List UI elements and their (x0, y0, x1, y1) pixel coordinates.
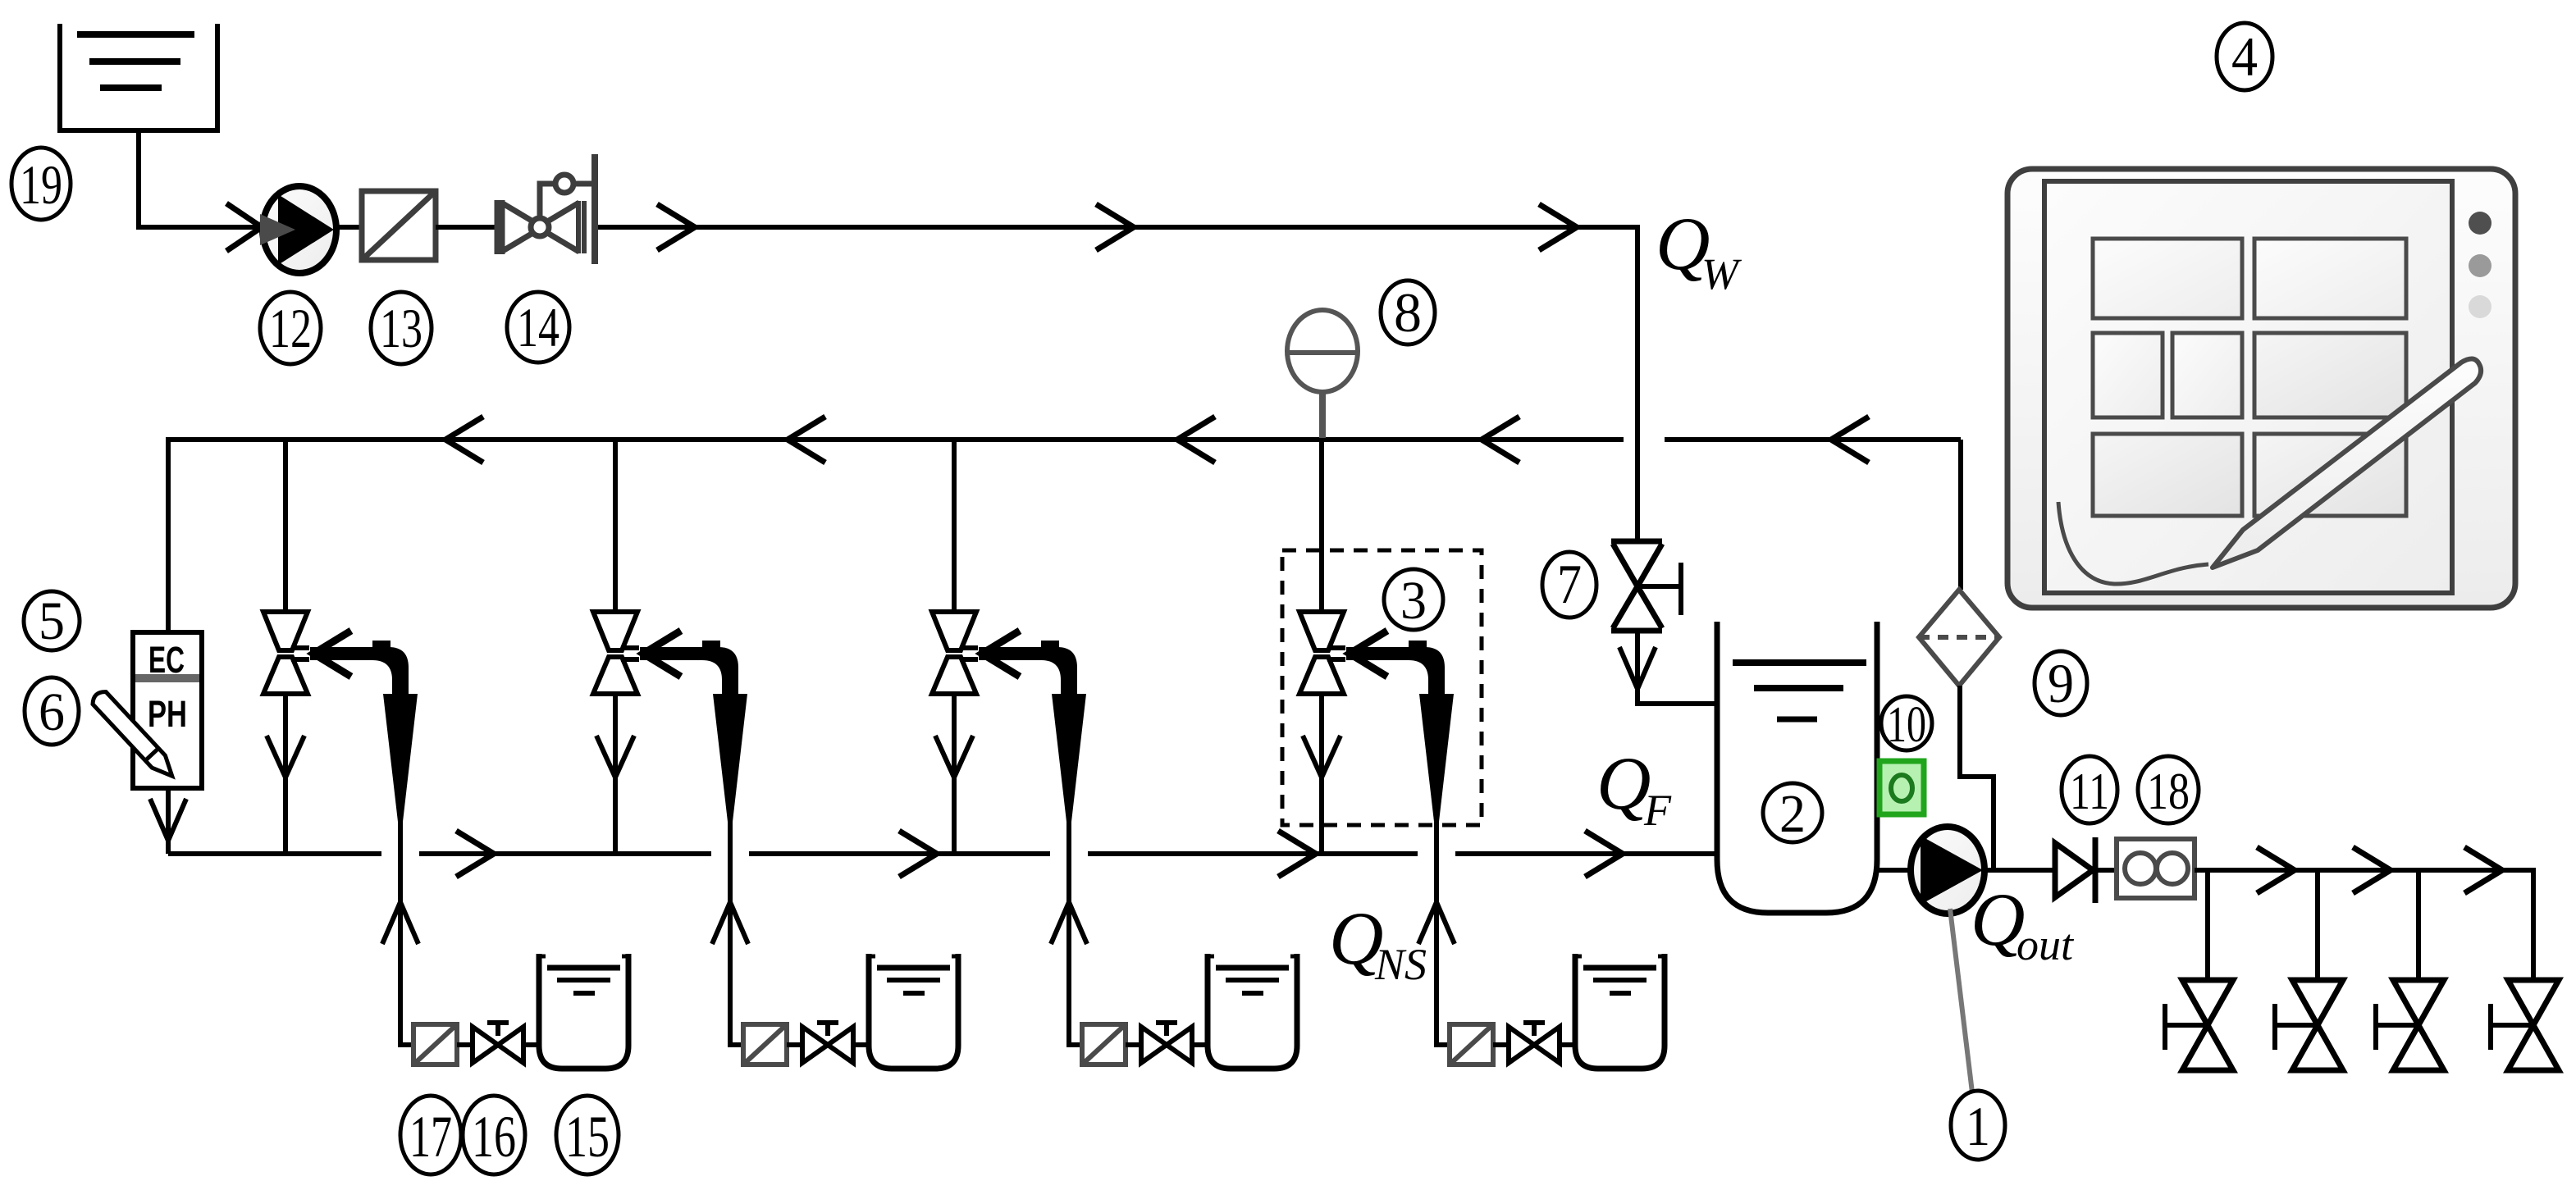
wire: return line from corner to EC/PH (with gap at Qw crossing) (168, 440, 1961, 632)
label 18 (2138, 756, 2199, 823)
stock tank (unit 1) (539, 954, 628, 1069)
label 4 (2217, 23, 2272, 90)
pump 12 (260, 186, 336, 273)
wire: suction filter to suction valve (unit 2) (787, 1042, 802, 1047)
wire: drop pipe from return line to injection valve (unit 1) (283, 440, 288, 613)
label 6 (25, 677, 79, 745)
svg-text:7: 7 (1557, 553, 1582, 615)
tablet button 1 (2469, 212, 2492, 235)
leader line to label 1 (1950, 909, 1972, 1092)
svg-text:PH: PH (148, 693, 187, 735)
svg-text:3: 3 (1400, 571, 1427, 631)
arrow up on suction pipe (unit 4) (1418, 902, 1455, 944)
arrow below injection valve (unit 2) (596, 736, 634, 777)
wire: feed manifold QF line (gaps at venturi crossings) (168, 851, 1717, 856)
sensor 8 (pressure sensor) (1287, 310, 1358, 438)
stylus trace curve (2058, 502, 2208, 584)
wire: suction valve to stock tank (unit 2) (853, 1042, 869, 1047)
arrow into injection valve (unit 4) (1350, 631, 1387, 677)
wire below injection valve (unit 1) (283, 694, 288, 854)
label 13 (371, 292, 432, 364)
arrow on distribution line 1 (2257, 847, 2295, 893)
EC/PH analyzer 5 (133, 632, 202, 788)
svg-text:out: out (2016, 920, 2075, 969)
dashed box 3 (metering unit) (1282, 550, 1482, 825)
arrow into injection valve (unit 1) (313, 631, 351, 677)
arrow on return line 1 (445, 417, 483, 463)
label QNS (1329, 896, 1427, 989)
stock tank (unit 4) (1575, 954, 1665, 1069)
screen cell r2a (2093, 333, 2163, 417)
venturi injector (unit 2) (640, 641, 747, 822)
wire below injection valve (unit 2) (613, 694, 618, 854)
label 17 (400, 1096, 461, 1174)
wire: tank 2 outlet to pump 1 (1877, 868, 1911, 873)
arrow below injection valve (unit 4) (1303, 736, 1341, 777)
svg-text:9: 9 (2048, 652, 2074, 714)
wire: suction valve to stock tank (unit 1) (523, 1042, 539, 1047)
label 19 (11, 148, 71, 220)
svg-text:16: 16 (472, 1104, 516, 1169)
pump 1 (output pump) (1911, 827, 1985, 914)
wire: drop pipe from return line to injection valve (unit 4) (1319, 440, 1324, 613)
tablet button 2 (2469, 254, 2492, 277)
label 7 (1542, 552, 1596, 618)
wire: suction filter to suction valve (unit 3) (1126, 1042, 1141, 1047)
label 9 (2035, 651, 2087, 715)
wire: pump outlet riser to filter 9 (1960, 686, 1994, 870)
label 15 (556, 1096, 619, 1174)
field valve 3 (2376, 980, 2444, 1070)
filter 13 (fine filter, square with diagonal) (362, 191, 436, 260)
flow meter 18 (2117, 839, 2195, 898)
svg-text:8: 8 (1394, 281, 1422, 344)
check valve 11 (2055, 837, 2095, 903)
suction filter (unit 1) (413, 1024, 457, 1065)
arrow on return line 5 (1831, 417, 1869, 463)
screen cell r1c1 (2093, 239, 2242, 318)
arrow into injection valve (unit 2) (643, 631, 681, 677)
stock tank (unit 3) (1208, 954, 1297, 1069)
wire: drop pipe from return line to injection valve (unit 3) (952, 440, 957, 613)
suction pipe (unit 1) (400, 820, 413, 1045)
venturi injector (unit 3) (979, 641, 1086, 822)
arrow on return line 2 (788, 417, 825, 463)
level sensor 10 (green) (1879, 761, 1924, 814)
label 11 (2062, 756, 2117, 823)
arrow on distribution line 3 (2464, 847, 2502, 893)
svg-text:1: 1 (1966, 1095, 1990, 1157)
svg-text:EC: EC (148, 639, 185, 681)
arrow below EC/PH (150, 799, 186, 841)
screen cell r2c2 (2254, 333, 2406, 417)
wire: branch drop 1 (2205, 870, 2210, 980)
svg-text:5: 5 (39, 591, 65, 651)
arrow on manifold 3 (1278, 831, 1316, 877)
arrow below injection valve (unit 3) (935, 736, 973, 777)
svg-text:18: 18 (2147, 762, 2190, 820)
wire below injection valve (unit 4) (1319, 694, 1324, 854)
arrow below valve 7 (1619, 647, 1656, 689)
svg-text:W: W (1701, 249, 1742, 299)
wire: branch drop 2 (2315, 870, 2320, 980)
arrow on manifold 1 (456, 831, 494, 877)
svg-text:6: 6 (39, 682, 65, 742)
wire: suction valve to stock tank (unit 3) (1192, 1042, 1208, 1047)
label 3 (1384, 569, 1443, 631)
svg-text:17: 17 (409, 1104, 452, 1169)
wire: branch drop 3 (2416, 870, 2421, 980)
suction valve (unit 1) (473, 1023, 523, 1063)
stock tank (unit 2) (869, 954, 958, 1069)
svg-text:4: 4 (2231, 25, 2258, 88)
tank 2 (mixing tank) (1717, 622, 1877, 913)
injection valve (unit 3) (932, 612, 978, 694)
label 8 (1381, 280, 1435, 344)
arrow on top pipe 1 (657, 204, 695, 250)
svg-text:13: 13 (380, 297, 422, 359)
label 16 (463, 1096, 525, 1174)
injection valve (unit 4) (1299, 612, 1345, 694)
wire filter 13 to valve 14 (436, 225, 497, 230)
arrow up on suction pipe (unit 1) (382, 902, 418, 944)
arrow on top pipe 2 (1096, 204, 1134, 250)
wire below injection valve (unit 3) (952, 694, 957, 854)
tablet body (2007, 169, 2515, 608)
arrow up on suction pipe (unit 3) (1051, 902, 1087, 944)
valve 7 (water inlet valve) (1611, 541, 1681, 631)
svg-text:19: 19 (20, 153, 62, 216)
wire: distribution line (2195, 870, 2533, 980)
wire: drop pipe from return line to injection valve (unit 2) (613, 440, 618, 613)
arrow into injection valve (unit 3) (982, 631, 1020, 677)
svg-text:15: 15 (565, 1104, 610, 1169)
tablet button 3 (2469, 295, 2492, 318)
screen cell r3c2 (2254, 434, 2406, 516)
wire below EC/PH to feed manifold (166, 788, 171, 854)
wire below valve 7 into tank 2 (1637, 631, 1717, 704)
suction pipe (unit 4) (1436, 820, 1450, 1045)
tablet screen (2044, 181, 2452, 593)
label 5 (24, 591, 80, 651)
injection valve (unit 1) (263, 612, 309, 694)
wire: top supply pipe to Qw corner (598, 227, 1637, 541)
valve 14 (motorized regulation valve) (500, 154, 595, 264)
svg-text:10: 10 (1887, 697, 1926, 753)
venturi injector (unit 4) (1346, 641, 1454, 822)
suction filter (unit 3) (1082, 1024, 1126, 1065)
wire: suction filter to suction valve (unit 1) (457, 1042, 473, 1047)
wire: pump 1 to check valve 11 (1985, 868, 2055, 873)
svg-text:14: 14 (517, 296, 560, 358)
wire: riser from pump to return corner (1958, 440, 1963, 590)
arrow on manifold 2 (899, 831, 937, 877)
stylus pen (2213, 358, 2481, 568)
screen cell r3c1 (2093, 434, 2242, 516)
arrow on return line 4 (1482, 417, 1519, 463)
tank 19 (source water tank) (60, 24, 217, 130)
arrow into pump 12 (226, 203, 262, 251)
injection valve (unit 2) (593, 612, 639, 694)
svg-text:12: 12 (269, 297, 312, 359)
svg-text:F: F (1643, 786, 1672, 835)
label 1 (1951, 1091, 2005, 1160)
wire: suction filter to suction valve (unit 4) (1493, 1042, 1509, 1047)
controller tablet 4 (2007, 169, 2515, 608)
label 14 (507, 292, 569, 362)
wire: tank 19 down pipe and inlet pipe (139, 130, 264, 227)
suction filter (unit 4) (1450, 1024, 1493, 1065)
wire pump 12 to filter 13 (336, 225, 362, 230)
field valve 4 (2491, 980, 2559, 1070)
suction pipe (unit 3) (1069, 820, 1082, 1045)
suction pipe (unit 2) (730, 820, 743, 1045)
suction valve (unit 3) (1141, 1023, 1192, 1063)
arrow on distribution line 2 (2353, 847, 2391, 893)
label 10 (1881, 696, 1932, 753)
probe 6 (pen sensor) (89, 689, 179, 782)
suction filter (unit 2) (743, 1024, 787, 1065)
svg-text:NS: NS (1374, 940, 1427, 989)
screen cell r2b (2172, 333, 2242, 417)
label 2 (1763, 783, 1822, 844)
venturi injector (unit 1) (310, 641, 418, 822)
suction valve (unit 2) (802, 1023, 853, 1063)
wire: check valve to flow meter 18 (2095, 868, 2117, 873)
label Qw (1656, 202, 1742, 299)
field valve 2 (2275, 980, 2343, 1070)
screen cell r1c2 (2254, 239, 2406, 318)
suction valve (unit 4) (1509, 1023, 1560, 1063)
arrow below injection valve (unit 1) (267, 736, 304, 777)
svg-text:11: 11 (2070, 762, 2109, 820)
arrow up on suction pipe (unit 2) (712, 902, 748, 944)
wire: suction valve to stock tank (unit 4) (1560, 1042, 1575, 1047)
svg-text:Q: Q (1596, 741, 1651, 825)
label QF (1596, 741, 1672, 835)
label 12 (260, 292, 321, 364)
arrow on manifold 4 (1585, 831, 1623, 877)
label Qout (1971, 878, 2075, 969)
filter 9 (diamond filter on return) (1919, 590, 1999, 686)
arrow on return line 3 (1177, 417, 1215, 463)
arrow on top pipe 3 (1539, 204, 1577, 250)
svg-text:2: 2 (1779, 784, 1806, 844)
field valve 1 (2165, 980, 2233, 1070)
